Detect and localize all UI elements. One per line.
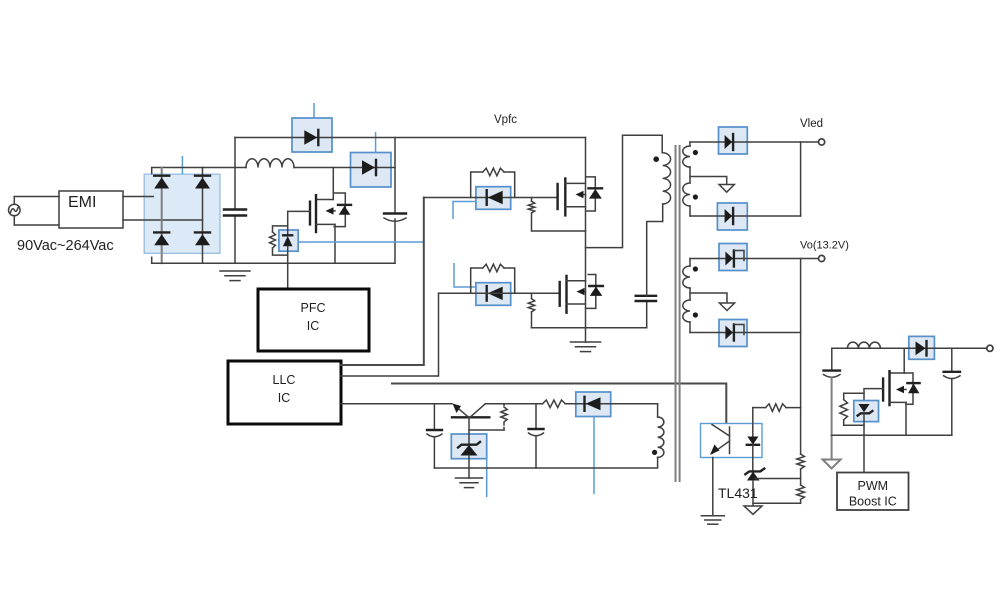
transistor Q4 (series pass) bbox=[452, 404, 489, 418]
MOSFET Q3 (HB low side) bbox=[560, 275, 603, 313]
wire gate Q5 bbox=[864, 389, 883, 401]
svg-text:PFC: PFC bbox=[301, 301, 326, 315]
ground (input) bbox=[220, 271, 250, 281]
wire LLC drive 2 bbox=[341, 293, 439, 376]
secondary S2 lower coil bbox=[683, 288, 690, 333]
wire S2 to D10 bbox=[690, 258, 819, 260]
svg-text:EMI: EMI bbox=[68, 194, 96, 211]
secondary S2 dot upper bbox=[693, 266, 698, 271]
opto driver U3 highlight box bbox=[476, 283, 511, 306]
aux winding T1 bbox=[658, 417, 664, 457]
capacitor C4 (aux input) bbox=[427, 404, 442, 468]
TL431 ground arrow bbox=[744, 506, 762, 514]
PWM Boost IC block bbox=[837, 473, 909, 511]
MOSFET Q1 (PFC switch) bbox=[288, 168, 351, 264]
wire LLC to Q4 bbox=[341, 403, 452, 405]
diode D10 highlight box bbox=[719, 244, 747, 271]
wire U3 to gate Q3 bbox=[439, 292, 560, 294]
boost ground rail (gray) bbox=[831, 378, 833, 460]
resistor R2 (parallel) bbox=[471, 168, 515, 197]
ground (opto) bbox=[701, 516, 724, 524]
resistor R10 (divider bottom) bbox=[797, 485, 805, 503]
opto driver U2 highlight box bbox=[476, 187, 511, 210]
optocoupler U4 transistor bbox=[710, 425, 730, 455]
diode U3 (gate drive 2) bbox=[487, 286, 503, 301]
svg-text:IC: IC bbox=[307, 319, 320, 333]
optocoupler U4 LED bbox=[747, 408, 759, 471]
optocoupler U4 box bbox=[701, 424, 763, 458]
diode D13 (boost) bbox=[916, 341, 927, 355]
aux winding dot bbox=[652, 450, 657, 455]
inductor L1 (PFC choke) bbox=[246, 159, 294, 168]
wire TL431 ref bbox=[755, 478, 801, 480]
boost ground arrow bbox=[823, 460, 841, 469]
PFC IC block bbox=[258, 289, 369, 351]
wire resonant bottom bbox=[532, 301, 647, 328]
resistor R5 (gate-source) bbox=[528, 293, 534, 327]
diode D5 highlight box bbox=[292, 118, 332, 152]
diode D8 (Vled rect top) bbox=[725, 134, 734, 150]
bridge top rail bbox=[152, 168, 246, 174]
wire L1 to D6 bbox=[294, 167, 395, 169]
wire Q4 collector out bbox=[485, 403, 542, 405]
bridge right column bbox=[202, 168, 204, 264]
blue wire PFC drive bbox=[299, 241, 424, 243]
wire C3 to primary bbox=[647, 204, 663, 296]
wire D12 to aux winding bbox=[657, 404, 659, 417]
wire S1 to D9 bbox=[690, 215, 801, 217]
terminal Vo bbox=[819, 255, 825, 261]
diode D9 (Vled rect bottom) bbox=[725, 208, 734, 224]
bottom rail (rectified return) bbox=[152, 257, 395, 263]
transformer core bbox=[676, 146, 680, 481]
half-bridge rail bbox=[585, 138, 587, 343]
svg-text:Vled: Vled bbox=[800, 118, 823, 130]
diode D8 highlight box bbox=[719, 127, 748, 154]
S1 center tap bbox=[690, 177, 727, 185]
transformer T1 primary bbox=[663, 153, 671, 204]
diode D5 leader bbox=[313, 103, 315, 118]
wire PFC IC to gate network bbox=[287, 255, 289, 289]
svg-text:TL431: TL431 bbox=[718, 485, 758, 501]
ground (aux) bbox=[456, 478, 483, 488]
resistor R6 (base bias) bbox=[469, 404, 507, 430]
wire node A vertical (x235) bbox=[234, 138, 236, 264]
wire gate to network bbox=[287, 211, 289, 235]
zener Z1 (base clamp) bbox=[458, 417, 480, 478]
bridge left column bbox=[161, 168, 163, 264]
wire top bypass path bbox=[235, 137, 586, 139]
diode D12 highlight box bbox=[576, 392, 611, 417]
ground (half-bridge) bbox=[571, 342, 601, 352]
wire midpoint to primary bbox=[586, 135, 663, 247]
MOSFET Q2 (HB high side) bbox=[558, 177, 602, 216]
resistor R8 (LED series) bbox=[753, 404, 801, 412]
opto U2 leader bbox=[453, 202, 476, 220]
label Vo(13.2V) bbox=[800, 240, 849, 252]
secondary S1 dot lower bbox=[693, 194, 698, 199]
diode D12 leader bbox=[593, 417, 595, 495]
terminal Vled bbox=[819, 139, 825, 145]
wire R7 to D12 bbox=[565, 403, 657, 405]
secondary S2 dot lower bbox=[693, 312, 698, 317]
inductor L2 (boost) bbox=[847, 342, 880, 348]
wire S2 to D11 bbox=[690, 332, 801, 334]
secondary S1 dot upper bbox=[693, 150, 698, 155]
primary dot bbox=[653, 156, 659, 162]
wire S1 to D8 bbox=[690, 141, 819, 143]
bridge diode D3 bbox=[154, 232, 169, 245]
bridge rectifier highlight box bbox=[144, 174, 220, 253]
secondary S2 upper coil bbox=[683, 259, 690, 289]
resistor R11 (gate) bbox=[840, 393, 864, 425]
capacitor C2 (PFC bulk) bbox=[384, 214, 406, 222]
diode D11 highlight box bbox=[719, 320, 747, 347]
diode D13 highlight box bbox=[909, 336, 935, 359]
bridge diode D2 bbox=[195, 176, 210, 189]
diode D6 (PFC boost diode) bbox=[362, 160, 376, 175]
svg-text:IC: IC bbox=[278, 391, 291, 405]
LLC IC block bbox=[228, 361, 341, 424]
S2 center tap arrow (ground) bbox=[719, 303, 734, 311]
resistor R7 (aux) bbox=[543, 400, 566, 408]
label Vpfc bbox=[494, 114, 517, 126]
svg-text:Vpfc: Vpfc bbox=[494, 114, 517, 126]
wire to opto U2 bbox=[424, 197, 558, 199]
boost bottom rail bbox=[832, 434, 952, 436]
opto U3 leader bbox=[454, 263, 476, 287]
bridge diode D1 bbox=[154, 176, 169, 189]
diode D9 highlight box bbox=[717, 203, 747, 230]
capacitor C6 (boost in) bbox=[824, 348, 841, 377]
terminal boost out bbox=[987, 345, 993, 351]
diode D10 (sync rect top) bbox=[725, 251, 744, 267]
EMI filter block bbox=[59, 191, 123, 228]
S2 center tap bbox=[690, 293, 727, 303]
TL431 U5 bbox=[745, 469, 764, 506]
wire Vo rail bbox=[800, 259, 802, 455]
svg-text:Boost IC: Boost IC bbox=[849, 495, 897, 509]
wire AC to EMI (top) bbox=[14, 196, 59, 198]
resistor R1 (gate) bbox=[270, 226, 288, 255]
diode D5 (bypass) bbox=[304, 130, 318, 145]
zener Z1 highlight box bbox=[451, 434, 486, 459]
secondary S1 upper coil bbox=[683, 142, 690, 167]
wire AC to EMI (bottom) bbox=[14, 224, 59, 226]
boost top rail bbox=[832, 347, 987, 349]
diode D6 leader bbox=[375, 132, 377, 153]
PFC gate network highlight box bbox=[279, 230, 298, 251]
wire EMI to bridge (top) bbox=[123, 196, 153, 198]
wire LLC drive 1 bbox=[341, 198, 424, 366]
capacitor C5 (aux out) bbox=[529, 404, 544, 468]
bridge diode D4 bbox=[195, 232, 210, 245]
S1 center tap arrow (ground) bbox=[719, 185, 734, 193]
svg-text:Vo(13.2V): Vo(13.2V) bbox=[800, 240, 849, 252]
capacitor C7 (boost out) bbox=[944, 348, 960, 435]
resistor R4 (parallel) bbox=[471, 264, 515, 293]
wire LLC feedback line bbox=[392, 384, 726, 424]
diode U2 (gate drive 1) bbox=[487, 190, 503, 205]
zener Z2 highlight box bbox=[854, 401, 879, 422]
svg-text:LLC: LLC bbox=[273, 373, 296, 387]
resistor R9 (divider top) bbox=[797, 454, 805, 485]
diode D12 (aux rectifier) bbox=[585, 397, 601, 411]
capacitor C1 (filter) bbox=[224, 210, 246, 216]
label Vled bbox=[800, 118, 823, 130]
capacitor C3 (resonant) bbox=[636, 296, 656, 301]
bridge leader line bbox=[181, 156, 183, 174]
diode D6 highlight box bbox=[351, 153, 392, 188]
wire Vled junction bbox=[800, 142, 802, 216]
diode D7 (gate) bbox=[283, 235, 293, 255]
svg-text:PWM: PWM bbox=[858, 479, 889, 493]
label TL431 bbox=[718, 485, 758, 501]
wire aux bottom return bbox=[434, 457, 657, 468]
zener Z1 leader bbox=[486, 459, 488, 497]
wire U4 emitter to ground bbox=[712, 458, 714, 516]
svg-text:90Vac~264Vac: 90Vac~264Vac bbox=[17, 238, 114, 254]
resistor R3 (gate-source) bbox=[528, 198, 585, 232]
secondary S1 lower coil bbox=[683, 167, 690, 216]
wire EMI to bridge (bottom) bbox=[123, 219, 203, 221]
MOSFET Q5 (boost switch) bbox=[883, 348, 920, 435]
wire divider return bbox=[753, 502, 801, 504]
zener Z2 (gate) bbox=[858, 404, 873, 473]
label 90Vac~264Vac bbox=[17, 238, 114, 254]
AC source V1 bbox=[9, 197, 21, 226]
diode D11 (sync rect bottom) bbox=[725, 325, 744, 341]
wire Vpfc bus vertical (x395) bbox=[394, 138, 396, 264]
